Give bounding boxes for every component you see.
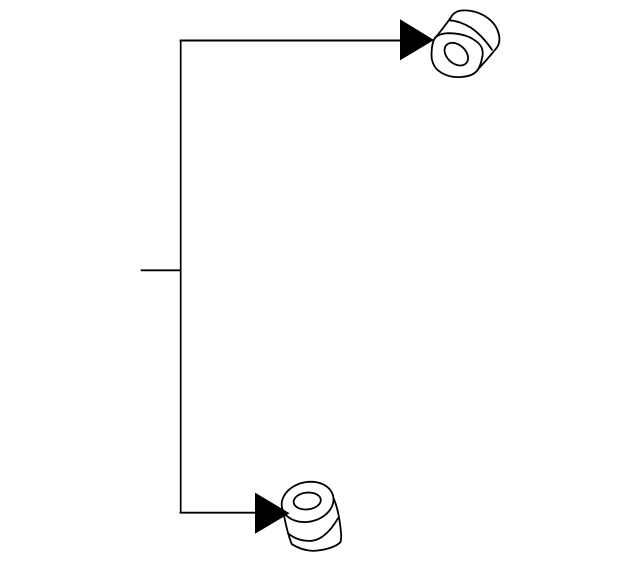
upper bushing body outline (435, 10, 500, 69)
lower bushing seam (288, 518, 338, 541)
upper bushing front face (432, 33, 483, 77)
upper bushing hole (445, 43, 468, 66)
arrowhead to lower bushing (255, 493, 290, 534)
wire: bottom horizontal leader (180, 512, 256, 514)
lower bushing body outline (282, 499, 341, 551)
wire: top horizontal leader (180, 40, 401, 42)
lower bushing hole (294, 493, 321, 510)
upper bushing seam (449, 20, 492, 50)
wire: left tick (141, 269, 181, 271)
arrowhead to upper bushing (400, 19, 434, 60)
lower bushing top face (282, 482, 334, 522)
wire: vertical leader line (180, 41, 182, 513)
